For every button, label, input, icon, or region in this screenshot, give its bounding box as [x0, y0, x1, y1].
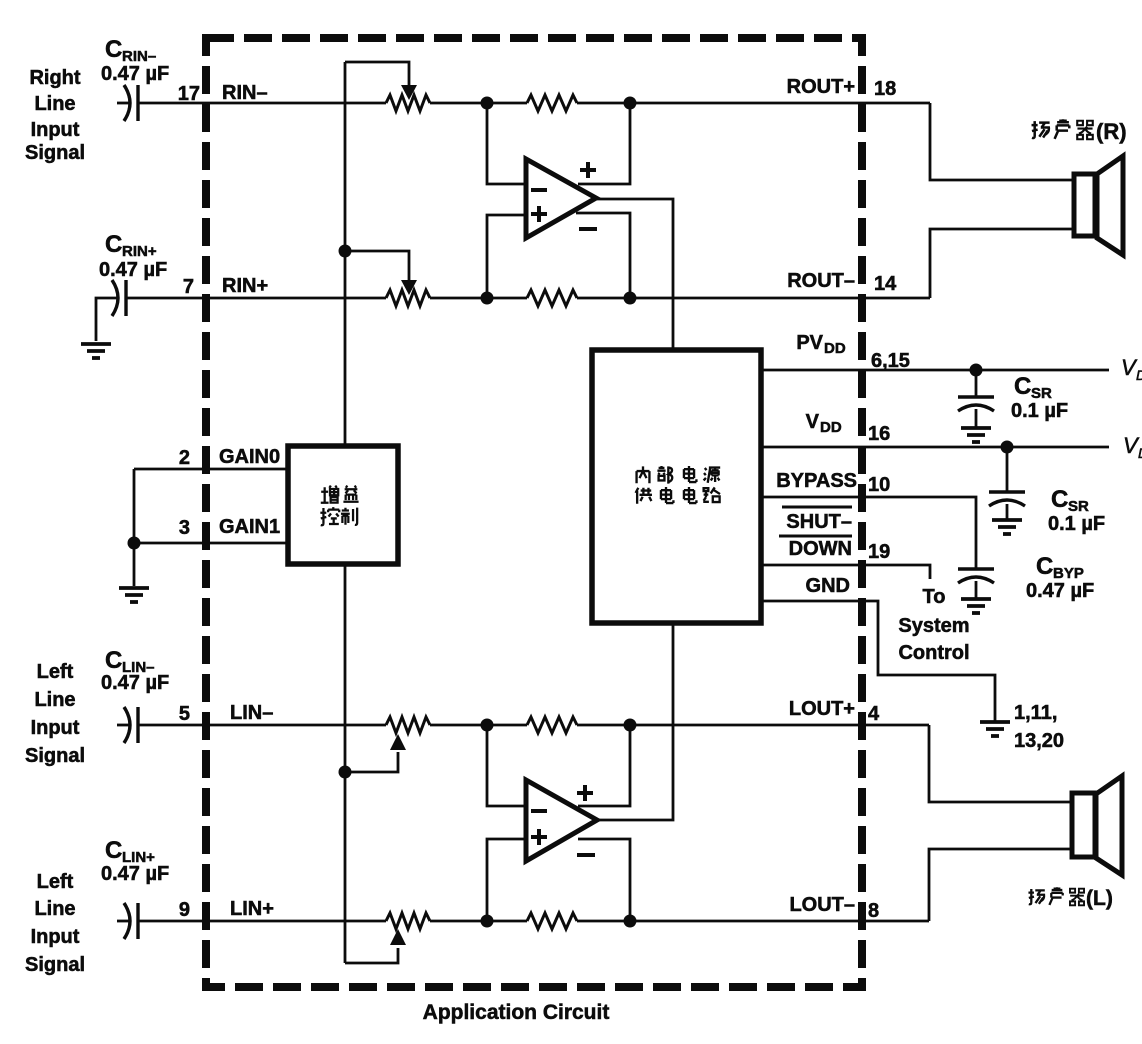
svg-text:C: C	[1036, 553, 1053, 580]
svg-text:0.1 µF: 0.1 µF	[1048, 513, 1105, 535]
svg-text:Signal: Signal	[25, 954, 85, 976]
svg-text:0.47 µF: 0.47 µF	[101, 863, 169, 885]
svg-text:10: 10	[868, 474, 890, 496]
svg-text:13,20: 13,20	[1014, 730, 1064, 752]
svg-text:C: C	[105, 231, 122, 258]
svg-text:16: 16	[868, 423, 890, 445]
svg-text:0.47 µF: 0.47 µF	[1026, 580, 1094, 602]
svg-text:Signal: Signal	[25, 142, 85, 164]
svg-text:GAIN1: GAIN1	[219, 516, 280, 538]
svg-text:4: 4	[868, 703, 880, 725]
svg-text:Line: Line	[34, 93, 75, 115]
svg-text:8: 8	[868, 900, 879, 922]
svg-text:9: 9	[179, 899, 190, 921]
svg-text:LOUT+: LOUT+	[789, 698, 855, 720]
svg-text:V: V	[806, 411, 820, 433]
svg-text:RIN+: RIN+	[122, 243, 157, 260]
svg-text:(L): (L)	[1086, 887, 1113, 910]
svg-text:C: C	[105, 36, 122, 63]
svg-text:(R): (R)	[1096, 119, 1127, 144]
svg-text:3: 3	[179, 517, 190, 539]
svg-text:C: C	[1051, 486, 1068, 513]
svg-text:LOUT–: LOUT–	[789, 894, 855, 916]
svg-text:Left: Left	[37, 871, 74, 893]
svg-text:5: 5	[179, 703, 190, 725]
svg-text:RIN–: RIN–	[222, 82, 268, 104]
svg-text:DD: DD	[824, 340, 846, 357]
svg-text:DOWN: DOWN	[789, 538, 852, 560]
svg-text:Signal: Signal	[25, 745, 85, 767]
svg-text:0.47 µF: 0.47 µF	[101, 672, 169, 694]
svg-text:0.47 µF: 0.47 µF	[101, 63, 169, 85]
svg-text:System: System	[898, 615, 969, 637]
svg-text:6,15: 6,15	[871, 350, 910, 372]
svg-text:To: To	[923, 586, 946, 608]
svg-text:0.47 µF: 0.47 µF	[99, 259, 167, 281]
svg-text:RIN+: RIN+	[222, 275, 268, 297]
svg-text:D: D	[1138, 445, 1142, 461]
svg-text:Line: Line	[34, 898, 75, 920]
svg-text:Line: Line	[34, 689, 75, 711]
svg-text:LIN+: LIN+	[230, 898, 274, 920]
svg-text:Input: Input	[31, 119, 80, 141]
svg-text:C: C	[105, 837, 122, 864]
svg-text:C: C	[105, 647, 122, 674]
svg-text:GND: GND	[806, 575, 850, 597]
svg-text:18: 18	[874, 78, 896, 100]
svg-text:14: 14	[874, 273, 897, 295]
svg-text:Control: Control	[898, 642, 969, 664]
svg-text:SHUT–: SHUT–	[786, 511, 852, 533]
svg-text:Left: Left	[37, 661, 74, 683]
svg-text:ROUT–: ROUT–	[787, 270, 855, 292]
svg-text:ROUT+: ROUT+	[787, 76, 855, 98]
svg-text:17: 17	[178, 83, 200, 105]
svg-text:Right: Right	[29, 67, 80, 89]
svg-text:GAIN0: GAIN0	[219, 446, 280, 468]
svg-text:19: 19	[868, 541, 890, 563]
svg-text:2: 2	[179, 447, 190, 469]
svg-text:7: 7	[183, 276, 194, 298]
svg-text:C: C	[1014, 373, 1031, 400]
svg-text:DD: DD	[820, 419, 842, 436]
svg-text:Application Circuit: Application Circuit	[423, 1001, 610, 1024]
svg-text:D: D	[1136, 367, 1142, 383]
svg-text:PV: PV	[796, 332, 823, 354]
svg-text:Input: Input	[31, 926, 80, 948]
svg-text:LIN–: LIN–	[230, 702, 273, 724]
svg-text:1,11,: 1,11,	[1014, 702, 1057, 724]
svg-text:BYPASS: BYPASS	[776, 470, 857, 492]
svg-text:0.1 µF: 0.1 µF	[1011, 400, 1068, 422]
svg-text:Input: Input	[31, 717, 80, 739]
